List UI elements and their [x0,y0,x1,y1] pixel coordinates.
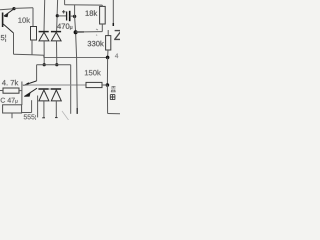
diode D3 triangle [39,90,49,101]
wire D2 anode down to node [56,41,58,65]
node dot right [55,63,58,66]
wire feet marks [42,117,45,119]
wire horizontal through dots [37,64,71,66]
resistor R4 330k body [106,36,111,50]
wire R4 bottom [107,50,109,57]
wire right cap branch down [75,5,78,108]
transistor Q1 emitter lead with arrow [4,9,14,16]
wire dark tail [76,108,78,114]
speck marks [96,29,98,35]
wire box right horizontal [22,112,32,114]
transistor Q1 collector lead [3,24,13,33]
label 330k [88,41,104,47]
label Z [114,30,122,40]
wire R2 left lead [0,90,3,92]
node dot right mid [106,56,110,60]
wire D4 anode down [55,101,57,118]
label 4.7k [2,80,18,86]
capacitor C1 plates [66,12,68,21]
label 10k [18,17,30,23]
resistor R2 4.7k body [3,88,19,93]
diode D1 triangle [39,32,49,41]
wire corner down right branch [70,65,72,114]
faint crease [62,111,69,120]
wire box bottom stub [11,113,13,118]
wire R1 bottom down [31,40,33,55]
wire bottom right horizontal [108,113,120,115]
diode D2 triangle [51,32,61,41]
wire dark tip [112,23,114,26]
capacitor C1 right lead [70,15,75,17]
diode D3 cathode bar [38,88,48,90]
tiny char glyph [110,95,115,100]
wire node to corner [14,7,33,10]
resistor R3 18k body [100,6,106,24]
node dot cap left [56,14,59,17]
wire long horizontal lower [22,84,86,86]
terminal bar vertical to box [21,82,23,106]
wire upper diode left leg from top [43,0,46,31]
node dot mid [74,30,78,34]
node dot left [43,63,46,66]
capacitor C1 left lead [57,15,66,17]
label 470u [57,23,72,29]
wire R3 bottom [101,24,103,32]
resistor R5 150k body [86,82,102,87]
wire right vertical down [106,57,108,85]
box component [3,105,22,113]
wire long horizontal mid [44,57,108,59]
wire top-left horizontal to node [0,8,14,11]
wire D1 anode down to node [43,41,45,65]
wire bar connector [49,88,51,90]
wire horizontal mid-left [14,54,44,55]
resistor R1 10k body [31,27,37,41]
wire R4 top stub [107,30,109,36]
wire R3 top [101,5,103,6]
wire third vertical [37,96,39,118]
potentiometer wiper diagonal with arrow [23,81,36,86]
diode D4 cathode bar [51,88,61,90]
node A junction dot [12,7,15,10]
wire R2 right lead [19,90,22,92]
wire collector down [13,33,15,54]
node dot right lower [106,83,110,87]
transistor Q1 base bar [2,13,4,28]
wire right vertical to bottom corner [106,85,108,114]
wire upper diode right leg from top [57,0,58,31]
wire top horizontal [65,4,103,6]
label 150k [85,70,101,76]
wire D3 anode down [43,101,45,118]
diode D2 cathode bar [51,31,61,33]
wire horizontal from node to R3 [76,31,103,33]
tiny annotation rows right edge [111,86,116,92]
wire jog at diode leg [43,55,45,57]
diode D4 triangle [51,90,61,101]
plus sign [62,10,65,13]
wire right edge vertical top [112,0,114,23]
label C47u [1,98,18,104]
node dot cap right [73,15,76,18]
label Q1 51 [1,35,6,42]
label 4 [115,54,118,58]
wire corner down to R1 [32,8,34,27]
wire R5 right lead [102,84,107,86]
label 18k [86,10,98,16]
potentiometer wiper vertical [36,65,38,81]
wire box right vertical up [31,100,33,112]
gate arrow diagonal lower [24,88,37,96]
diode D1 cathode bar [39,31,49,33]
label 5551 [24,115,36,121]
wire dark segment at node [76,31,84,33]
wire top capacitor branch vertical [64,0,66,5]
